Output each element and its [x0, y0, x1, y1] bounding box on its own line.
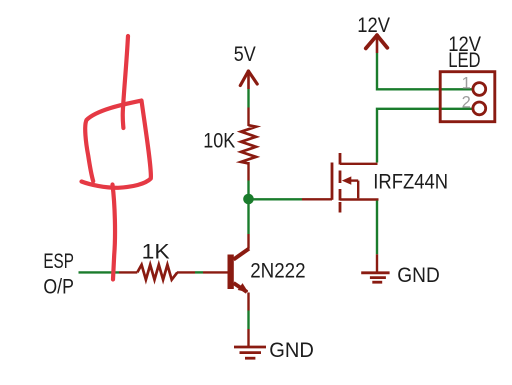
junction node dot	[243, 194, 254, 205]
wire emitter ground net	[247, 311, 249, 330]
svg-text:1K: 1K	[142, 240, 170, 264]
annotation red tail stroke	[113, 185, 116, 280]
resistor R2 10K bottom pin lead	[247, 162, 249, 181]
svg-text:O/P: O/P	[43, 274, 74, 298]
resistor R1 1K left pin lead	[119, 271, 137, 273]
wire ESP output net	[79, 271, 120, 273]
svg-text:IRFZ44N: IRFZ44N	[373, 170, 448, 194]
transistor Q1 collector pin lead	[247, 234, 249, 249]
connector J1 12V LED	[440, 72, 495, 122]
transistor Q1 2N222	[228, 249, 250, 293]
wire source ground net	[376, 201, 378, 255]
resistor R2 10K top pin lead	[247, 108, 249, 127]
annotation red vertical stroke	[123, 36, 128, 128]
wire 5V net	[247, 89, 249, 108]
svg-text:10K: 10K	[203, 128, 235, 152]
node ESP O/P	[43, 249, 74, 299]
svg-text:2N222: 2N222	[250, 258, 305, 282]
transistor Q1 base pin lead	[203, 271, 228, 273]
svg-text:12V: 12V	[357, 13, 390, 37]
power symbol 12V arrow	[366, 35, 388, 53]
svg-text:ESP: ESP	[43, 249, 74, 273]
wire drain net vertical	[377, 109, 472, 163]
wire collector net vertical	[247, 181, 249, 235]
label connector 12V LED	[448, 32, 482, 72]
wire gate net horizontal	[249, 198, 303, 200]
wire base net	[195, 271, 203, 273]
resistor R1 1K	[137, 265, 177, 280]
svg-text:5V: 5V	[234, 42, 257, 66]
mosfet U1 IRFZ44N	[331, 153, 379, 213]
mosfet U1 gate pin lead	[302, 198, 332, 200]
transistor Q1 emitter pin lead	[247, 293, 249, 311]
ground symbol GND1	[234, 329, 266, 358]
annotation red loop stroke	[82, 101, 151, 188]
wire 12V supply net	[377, 53, 472, 89]
power symbol 5V arrow	[240, 71, 257, 89]
svg-text:2: 2	[462, 94, 471, 112]
svg-text:GND: GND	[397, 263, 440, 287]
ground symbol GND2	[361, 254, 389, 282]
resistor R1 1K right pin lead	[177, 271, 195, 273]
svg-text:LED: LED	[448, 48, 480, 72]
svg-text:GND: GND	[269, 338, 314, 362]
svg-text:1: 1	[462, 74, 471, 92]
resistor R2 10K	[241, 125, 256, 163]
